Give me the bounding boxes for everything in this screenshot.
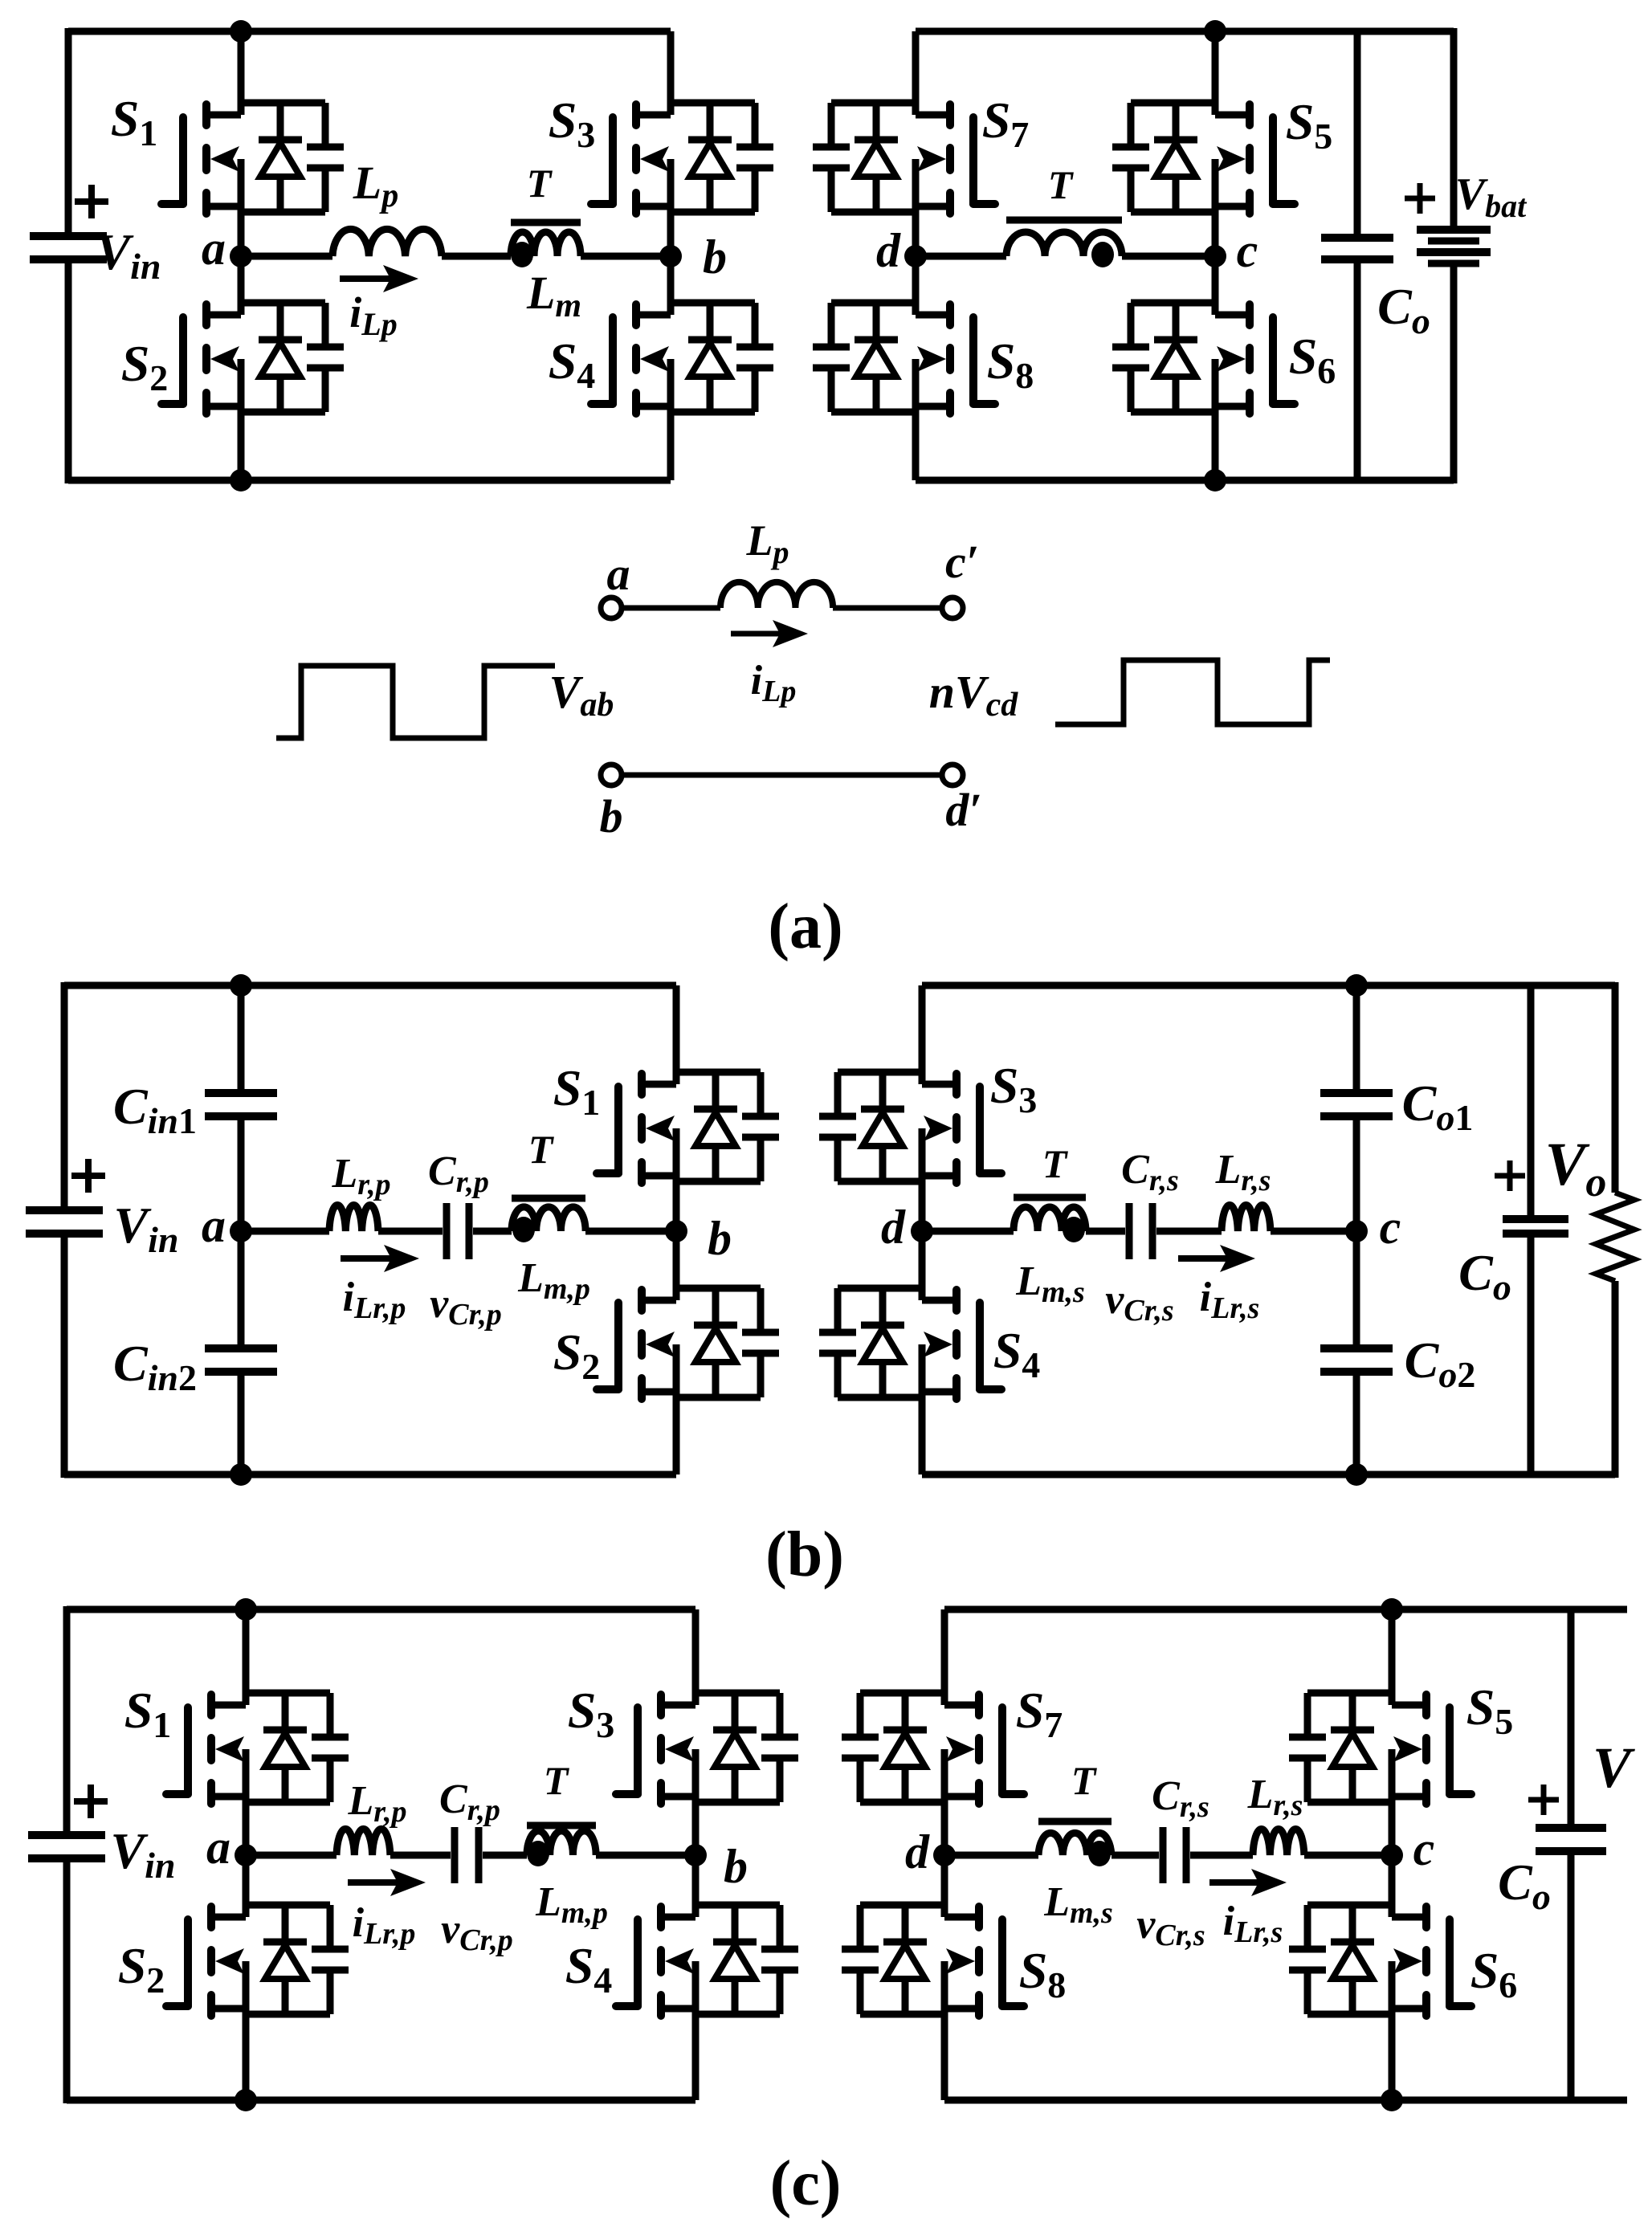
transistor S1 (circuit a) (MOSFET with body diode and parallel capacitor) (161, 31, 344, 256)
source Vin (circuit a) (30, 232, 107, 240)
svg-text:nVcd: nVcd (929, 666, 1019, 724)
wire: circuit-b left rail lower segment (61, 1234, 68, 1478)
capacitor Co branch wire lower (circuit c) (1568, 1851, 1575, 2100)
transistor S3 (circuit a) (MOSFET with body diode and parallel capacitor) (591, 31, 773, 256)
capacitor Co branch wire upper (circuit c) (1568, 1609, 1575, 1828)
svg-text:Co1: Co1 (1402, 1075, 1474, 1138)
svg-text:Co: Co (1498, 1854, 1551, 1917)
wire: circuit-b left box bottom rail (64, 1471, 676, 1479)
svg-text:S2: S2 (121, 335, 169, 398)
svg-text:Lp: Lp (746, 516, 789, 570)
inductor Lr,p (circuit c) (337, 1829, 390, 1855)
wire: load rail lower segment (circuit b) (1612, 1281, 1619, 1478)
wire: node d to transformer secondary (circuit c) (944, 1852, 1038, 1859)
terminal d-prime (equivalent circuit) (942, 765, 963, 785)
wire: circuit-c left box top rail (67, 1606, 695, 1613)
transistor S3 (circuit c) (MOSFET with body diode and parallel capacitor) (616, 1609, 798, 1855)
wire: Lr,p to Cr,p (circuit c) (390, 1852, 451, 1859)
label + polarity of Vin (circuit b) (71, 1159, 105, 1193)
node a (circuit c) (235, 1844, 257, 1866)
transformer T primary winding Lm (circuit a) (511, 222, 581, 267)
node: bottom junction of S6 leg (circuit c) (1381, 2089, 1403, 2111)
svg-text:S3: S3 (990, 1057, 1038, 1120)
capacitor Co branch wire upper (circuit a) (1354, 31, 1361, 238)
transformer T secondary winding Lm,s (circuit c) (1038, 1821, 1112, 1866)
wire: transformer primary to node b (circuit a) (581, 253, 671, 260)
svg-text:c: c (1380, 1201, 1401, 1254)
wire: circuit-a left rail lower segment (65, 259, 72, 483)
transformer T primary winding Lm,p (circuit b) (512, 1198, 585, 1242)
current arrow iLr,p (circuit c) (348, 1879, 398, 1886)
svg-text:S4: S4 (549, 332, 596, 396)
svg-text:S2: S2 (553, 1324, 601, 1387)
terminal b (equivalent circuit) (601, 765, 622, 785)
wire: Cr,p to transformer primary (circuit c) (483, 1852, 527, 1859)
node c (circuit b) (1345, 1220, 1368, 1242)
svg-text:vCr,s: vCr,s (1105, 1277, 1173, 1328)
source Vin (circuit b) (26, 1206, 103, 1214)
transistor S4 (circuit c) (MOSFET with body diode and parallel capacitor) (616, 1855, 798, 2100)
label + polarity of Vin (circuit c) (74, 1785, 108, 1818)
svg-text:T: T (544, 1758, 570, 1803)
node b (circuit a) (659, 245, 682, 267)
svg-text:S1: S1 (111, 90, 158, 153)
svg-text:Lr,p: Lr,p (332, 1151, 391, 1201)
node: bottom junction of S2 leg (circuit c) (235, 2089, 257, 2111)
svg-text:Co: Co (1377, 278, 1430, 341)
wire: circuit-c left rail lower segment (63, 1858, 71, 2103)
wire: circuit-b left rail upper segment (61, 982, 68, 1210)
svg-text:Lr,s: Lr,s (1215, 1147, 1271, 1197)
svg-text:S8: S8 (1019, 1942, 1067, 2005)
svg-text:S7: S7 (982, 92, 1030, 155)
svg-text:d: d (905, 1825, 930, 1878)
svg-text:(c): (c) (770, 2148, 842, 2219)
node a (circuit b) (230, 1220, 252, 1242)
node c (circuit c) (1381, 1844, 1403, 1866)
svg-text:T: T (528, 1127, 555, 1172)
wire: right rail lower (circuit a) (1450, 263, 1458, 483)
resistor RL load (circuit b) (1596, 1193, 1634, 1281)
svg-text:Cr,p: Cr,p (428, 1148, 489, 1199)
svg-text:iLr,s: iLr,s (1223, 1899, 1283, 1949)
node: top junction of S5 leg (circuit c) (1381, 1598, 1403, 1621)
node: output leg top junction (circuit b) (1345, 974, 1368, 997)
transistor S7 (circuit a) (MOSFET with body diode and parallel capacitor) (813, 31, 995, 256)
wire: Cr,p to transformer primary (circuit b) (473, 1228, 512, 1235)
svg-text:T: T (1048, 162, 1075, 207)
square-wave symbol for nVcd (1055, 660, 1330, 724)
current arrow iLr,s (circuit b) (1178, 1255, 1228, 1262)
terminal a (equivalent circuit) (601, 598, 622, 618)
svg-text:Lr,s: Lr,s (1247, 1772, 1303, 1822)
wire: transformer primary to node b (circuit b) (585, 1228, 676, 1235)
svg-text:b: b (600, 790, 623, 842)
svg-text:S6: S6 (1289, 328, 1336, 391)
svg-text:Cr,p: Cr,p (439, 1776, 500, 1827)
label + polarity of Vo (circuit b) (1495, 1160, 1525, 1191)
svg-text:Cin1: Cin1 (113, 1078, 197, 1141)
inductor Lr,s (circuit c) (1253, 1829, 1304, 1855)
wire: Lr,p to Cr,p (circuit b) (378, 1228, 443, 1235)
svg-text:S8: S8 (987, 332, 1034, 396)
transistor S2 (circuit c) (MOSFET with body diode and parallel capacitor) (166, 1855, 349, 2100)
wire: transformer secondary to Cr,s (circuit c) (1112, 1852, 1159, 1859)
transistor S6 (circuit a) (MOSFET with body diode and parallel capacitor) (1112, 256, 1295, 480)
svg-text:b: b (708, 1212, 732, 1265)
wire: Co branch lower segment (circuit b) (1528, 1234, 1535, 1475)
label + polarity (circuit c) (1528, 1785, 1559, 1815)
svg-text:d: d (881, 1201, 906, 1254)
capacitor Cin1 (circuit b) (205, 1089, 277, 1097)
node: top junction of S5 leg (circuit a) (1204, 20, 1226, 43)
svg-text:vCr,s: vCr,s (1136, 1902, 1205, 1952)
label + polarity of Vbat (circuit a) (1405, 183, 1435, 214)
svg-text:d: d (876, 224, 901, 277)
capacitor Cr,p (circuit b) (443, 1203, 451, 1259)
node c (circuit a) (1204, 245, 1226, 267)
wire: Co leg middle upper segment (circuit b) (1353, 1116, 1360, 1348)
svg-text:iLp: iLp (751, 658, 797, 708)
inductor Lr,p (circuit b) (329, 1205, 378, 1231)
svg-text:Vab: Vab (549, 666, 614, 724)
transistor S4 (circuit a) (MOSFET with body diode and parallel capacitor) (591, 256, 773, 480)
node: bottom junction of S2 leg (circuit a) (230, 469, 252, 492)
transistor S5 (circuit c) (MOSFET with body diode and parallel capacitor) (1289, 1609, 1471, 1855)
svg-text:a: a (607, 548, 630, 600)
svg-text:Co2: Co2 (1405, 1332, 1476, 1395)
svg-text:S1: S1 (124, 1682, 172, 1745)
capacitor Co1 (circuit b) (1320, 1089, 1393, 1097)
svg-text:vCr,p: vCr,p (441, 1907, 513, 1957)
svg-text:Vin: Vin (113, 1197, 178, 1260)
capacitor Co (circuit a) (1321, 234, 1393, 242)
capacitor Co (circuit c) (1536, 1824, 1606, 1832)
wire: Co2 leg lower segment (circuit b) (1353, 1372, 1360, 1475)
transistor S4 (circuit b) (MOSFET with body diode and parallel capacitor) (819, 1231, 1001, 1475)
terminal c-prime (equivalent circuit) (942, 598, 963, 618)
wire: circuit-a left rail upper segment (65, 28, 72, 236)
svg-text:T: T (1071, 1758, 1098, 1803)
svg-text:Cin2: Cin2 (113, 1335, 197, 1398)
current arrow iLr,s (circuit c) (1209, 1879, 1259, 1886)
node: Cin leg bottom junction (circuit b) (230, 1463, 252, 1486)
wire: circuit-c right box top rail (944, 1606, 1627, 1613)
transformer T secondary winding Lm,s (circuit b) (1014, 1197, 1086, 1242)
svg-text:Lm,p: Lm,p (535, 1879, 608, 1930)
node: Cin leg top junction (circuit b) (230, 974, 252, 997)
wire: Cr,s to Lr,s (circuit b) (1156, 1228, 1222, 1235)
capacitor Co2 (circuit b) (1320, 1344, 1393, 1352)
svg-text:Cr,s: Cr,s (1121, 1147, 1179, 1197)
wire: circuit-b left box top rail (64, 982, 676, 989)
current arrow iLp (circuit a) (340, 275, 391, 282)
node d (circuit b) (911, 1220, 933, 1242)
svg-text:S6: S6 (1470, 1942, 1518, 2005)
capacitor Cr,p (circuit c) (451, 1827, 459, 1883)
svg-text:S2: S2 (118, 1937, 165, 2001)
svg-text:iLr,p: iLr,p (353, 1900, 416, 1951)
svg-text:S4: S4 (565, 1937, 613, 2001)
wire: Co1 leg upper segment (circuit b) (1353, 985, 1360, 1093)
svg-text:Cr,s: Cr,s (1152, 1773, 1209, 1824)
svg-text:Lp: Lp (353, 157, 398, 214)
wire: Lr,s to node c (circuit c) (1304, 1852, 1392, 1859)
wire: transformer secondary to Cr,s (circuit b) (1086, 1228, 1125, 1235)
svg-text:Co: Co (1458, 1244, 1511, 1307)
svg-text:iLp: iLp (349, 288, 397, 342)
svg-text:S3: S3 (568, 1682, 615, 1745)
wire: transformer primary to node b (circuit c) (596, 1852, 695, 1859)
transistor S2 (circuit b) (MOSFET with body diode and parallel capacitor) (597, 1231, 779, 1475)
transistor S5 (circuit a) (MOSFET with body diode and parallel capacitor) (1112, 31, 1295, 256)
transistor S1 (circuit b) (MOSFET with body diode and parallel capacitor) (597, 985, 779, 1231)
capacitor Co (circuit b) (1503, 1215, 1568, 1223)
wire: load rail upper segment (circuit b) (1612, 982, 1619, 1193)
wire: node a to inductor Lp (circuit a) (241, 253, 332, 260)
transistor S8 (circuit c) (MOSFET with body diode and parallel capacitor) (842, 1855, 1024, 2100)
inductor Lr,s (circuit b) (1222, 1205, 1271, 1231)
wire: circuit-b right box bottom rail (922, 1471, 1615, 1479)
node d (circuit a) (904, 245, 927, 267)
svg-text:S5: S5 (1286, 93, 1333, 157)
transformer T secondary winding (circuit a) (1006, 220, 1122, 267)
wire: Co branch upper segment (circuit b) (1528, 985, 1535, 1219)
svg-text:Vbat: Vbat (1455, 169, 1528, 224)
wire: circuit-c left rail upper segment (63, 1606, 71, 1835)
svg-text:a: a (202, 1199, 226, 1252)
svg-text:Lr,p: Lr,p (348, 1778, 407, 1829)
inductor Lp (equivalent circuit) (720, 582, 833, 608)
wire: circuit-c left box bottom rail (67, 2097, 695, 2104)
svg-text:Lm,p: Lm,p (517, 1255, 590, 1306)
svg-text:Lm,s: Lm,s (1043, 1879, 1113, 1930)
wire: equivalent circuit bottom segment (b to d-prime) (622, 773, 942, 778)
svg-text:Lm,s: Lm,s (1015, 1258, 1085, 1309)
node: bottom junction of S6 leg (circuit a) (1204, 469, 1226, 492)
wire: circuit-a right bridge top rail (916, 28, 1454, 35)
wire: node a to Lr,p (circuit c) (246, 1852, 337, 1859)
svg-text:iLr,s: iLr,s (1200, 1275, 1260, 1325)
wire: circuit-a left bridge top rail (68, 28, 671, 35)
wire: node d to transformer secondary (circuit a) (916, 253, 1006, 260)
node: output leg bottom junction (circuit b) (1345, 1463, 1368, 1486)
capacitor Cin2 (circuit b) (205, 1344, 277, 1352)
wire: circuit-a right bridge bottom rail (916, 477, 1454, 484)
transistor S6 (circuit c) (MOSFET with body diode and parallel capacitor) (1289, 1855, 1471, 2100)
inductor Lp (circuit a) (332, 229, 442, 256)
wire: Cr,s to Lr,s (circuit c) (1190, 1852, 1253, 1859)
transistor S7 (circuit c) (MOSFET with body diode and parallel capacitor) (842, 1609, 1024, 1855)
svg-text:S1: S1 (553, 1059, 601, 1123)
svg-text:a: a (206, 1821, 230, 1874)
svg-text:S7: S7 (1016, 1682, 1063, 1745)
svg-text:iLr,p: iLr,p (343, 1275, 406, 1325)
svg-text:Vin: Vin (110, 1822, 175, 1886)
transformer T primary winding Lm,p (circuit c) (527, 1825, 596, 1866)
wire: Cin leg middle segment (circuit b) (238, 1116, 245, 1348)
wire: circuit-c right box bottom rail (944, 2097, 1627, 2104)
wire: right rail upper (circuit a) (1450, 28, 1458, 230)
svg-text:T: T (527, 161, 553, 206)
svg-text:c′: c′ (945, 536, 979, 588)
wire: Cin leg lower segment (circuit b) (238, 1372, 245, 1475)
transistor S8 (circuit a) (MOSFET with body diode and parallel capacitor) (813, 256, 995, 480)
label + polarity of Vin (circuit a) (75, 185, 108, 218)
wire: transformer secondary to node c (circuit a) (1122, 253, 1215, 260)
svg-text:(a): (a) (768, 891, 842, 962)
current arrow iLr,p (circuit b) (341, 1255, 392, 1262)
svg-text:vCr,p: vCr,p (430, 1281, 502, 1332)
svg-text:S5: S5 (1466, 1678, 1514, 1742)
capacitor Cr,s (circuit c) (1160, 1827, 1167, 1883)
svg-text:V: V (1593, 1736, 1635, 1800)
svg-text:c: c (1413, 1822, 1435, 1875)
wire: equivalent circuit top left segment (a to Lp) (622, 606, 720, 611)
wire: Cin leg upper segment (circuit b) (238, 985, 245, 1093)
wire: Lp to transformer primary (circuit a) (442, 253, 511, 260)
battery Vbat (circuit a) (1417, 226, 1491, 234)
node: top junction of S1 leg (circuit c) (235, 1598, 257, 1621)
capacitor Co branch wire lower (circuit a) (1354, 259, 1361, 480)
node b (circuit c) (684, 1844, 707, 1866)
node: top junction of S1 leg (circuit a) (230, 20, 252, 43)
source Vin (circuit c) (28, 1831, 105, 1839)
wire: circuit-a left bridge bottom rail (68, 477, 671, 484)
svg-text:b: b (703, 230, 727, 283)
wire: node a to Lr,p (circuit b) (241, 1228, 329, 1235)
node a (circuit a) (230, 245, 252, 267)
current arrow iLp (equivalent circuit) (731, 631, 781, 637)
wire: equivalent circuit top right segment (Lp to c-prime) (833, 606, 942, 611)
square-wave symbol for Vab (276, 666, 555, 738)
svg-text:Vo: Vo (1545, 1131, 1607, 1205)
svg-text:Lm: Lm (526, 267, 581, 324)
svg-text:T: T (1042, 1141, 1069, 1186)
svg-text:Vin: Vin (96, 223, 161, 287)
wire: node d to transformer secondary (circuit b) (922, 1228, 1014, 1235)
node d (circuit c) (933, 1844, 956, 1866)
svg-text:S4: S4 (993, 1322, 1041, 1385)
transistor S3 (circuit b) (MOSFET with body diode and parallel capacitor) (819, 985, 1001, 1231)
svg-text:b: b (724, 1840, 748, 1893)
svg-text:a: a (202, 222, 226, 275)
capacitor Cr,s (circuit b) (1126, 1203, 1133, 1259)
svg-text:(b): (b) (765, 1519, 844, 1590)
transistor S2 (circuit a) (MOSFET with body diode and parallel capacitor) (161, 256, 344, 480)
transistor S1 (circuit c) (MOSFET with body diode and parallel capacitor) (166, 1609, 349, 1855)
wire: circuit-b right box top rail (922, 982, 1615, 989)
svg-text:c: c (1237, 224, 1258, 277)
wire: Lr,s to node c (circuit b) (1271, 1228, 1356, 1235)
svg-text:d′: d′ (945, 784, 981, 836)
node b (circuit b) (665, 1220, 687, 1242)
svg-text:S3: S3 (549, 92, 596, 155)
